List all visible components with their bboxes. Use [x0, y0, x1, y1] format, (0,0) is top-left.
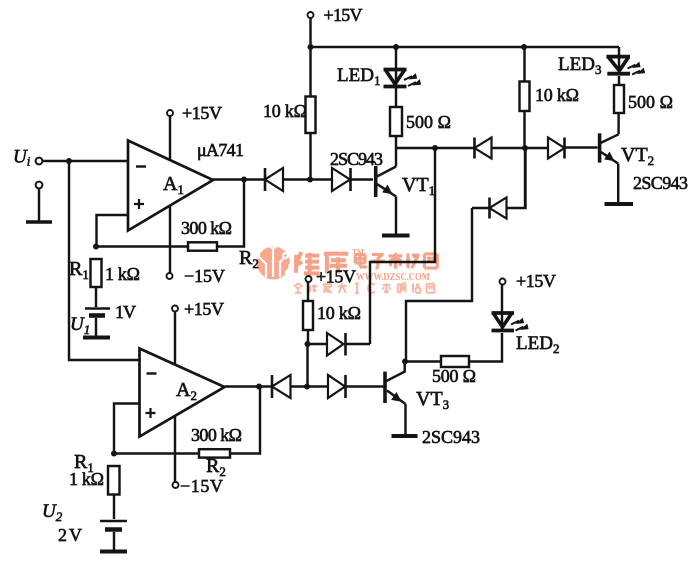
node A2 output — [256, 384, 262, 390]
wire input to A1 inverting input — [42, 160, 128, 162]
wire lower diode row — [472, 148, 526, 208]
svg-text:2SC943: 2SC943 — [330, 149, 383, 169]
wire top rail — [311, 46, 620, 48]
wire A2 noninverting input — [114, 404, 139, 454]
wire A1 -supply pin — [169, 206, 171, 273]
resistor R2 300k upper — [188, 242, 217, 250]
ground VT3 — [392, 434, 418, 438]
resistor 10k #1 — [309, 47, 311, 97]
terminal +15V LED2 — [500, 279, 506, 285]
node row2 — [305, 341, 311, 347]
svg-text:LED2: LED2 — [516, 333, 559, 356]
wire feedback left segment — [96, 245, 188, 247]
op-amp A1 — [128, 141, 213, 231]
wire VT1 collector up — [395, 136, 397, 167]
watermark — [254, 242, 437, 293]
wire A1 noninverting input — [97, 215, 129, 247]
wire row1 b — [351, 178, 374, 180]
battery U1 — [85, 307, 110, 309]
resistor 500 #2 — [441, 356, 469, 367]
LED1 — [395, 47, 397, 86]
svg-text:+15V: +15V — [324, 5, 363, 25]
diode D7 (row3 left, points left) — [271, 375, 274, 398]
ground terminal circle below Ui — [36, 182, 43, 189]
node row1 mid — [307, 177, 313, 183]
terminal +15V of A1 — [167, 110, 173, 116]
svg-text:LED3: LED3 — [558, 54, 601, 77]
battery U2 — [100, 520, 127, 522]
resistor 500 #3 — [618, 76, 620, 85]
svg-text:300 kΩ: 300 kΩ — [181, 218, 232, 238]
wire row3 a — [291, 385, 329, 387]
terminal +15V of A2 — [172, 306, 178, 312]
diode D3 (points left) — [473, 138, 476, 159]
transistor VT3 — [383, 372, 387, 403]
node input junction — [66, 158, 72, 164]
svg-text:300 kΩ: 300 kΩ — [191, 425, 242, 445]
node row3 mid — [304, 384, 310, 390]
svg-text:+15V: +15V — [516, 271, 556, 291]
+15V terminal 10k #2 — [306, 276, 312, 282]
wire ground stub — [38, 189, 40, 223]
diode D8 (row3 right, points right) — [328, 375, 345, 398]
diode D6 (row2, points right) — [308, 343, 328, 345]
node row1.5 a — [432, 145, 438, 151]
wire collector row — [405, 360, 441, 362]
wire routing to VT3 collector node — [406, 208, 472, 362]
svg-text:μA741: μA741 — [197, 140, 244, 160]
svg-text:+15V: +15V — [182, 103, 222, 123]
wire A1 +supply pin — [169, 116, 171, 160]
svg-text:+15V: +15V — [316, 267, 356, 287]
node rail LED1 — [393, 44, 399, 50]
LED2 — [492, 311, 515, 315]
resistor 10k #3 — [523, 47, 525, 82]
diode D2 (row1 right, points right) — [332, 168, 350, 191]
LED3 column — [618, 47, 620, 73]
node A1 output — [241, 177, 247, 183]
svg-text:10 kΩ: 10 kΩ — [263, 101, 307, 121]
terminal -15V of A1 — [167, 273, 173, 279]
+15V top terminal — [308, 12, 314, 18]
svg-text:2V: 2V — [58, 525, 82, 545]
svg-text:500 Ω: 500 Ω — [628, 92, 673, 112]
wire row1 a — [283, 178, 332, 180]
svg-text:2SC943: 2SC943 — [422, 427, 480, 447]
wire A2 -supply pin — [174, 417, 176, 482]
wire 10k2 node down to row3 — [306, 344, 308, 387]
wire top terminal down — [309, 18, 311, 47]
diode D1 (row1 left, points left) — [264, 168, 267, 191]
wire row1.5 — [396, 147, 475, 149]
wire row1.5 b — [492, 147, 549, 149]
transistor VT1 — [374, 166, 378, 197]
wire routing from node A down to row2 — [370, 148, 435, 344]
wire row3 b — [346, 385, 384, 387]
wire feedback2 left — [114, 452, 199, 454]
resistor 500 #1 — [395, 87, 397, 107]
wire VT1 emitter down — [395, 197, 397, 234]
ground (input) — [26, 220, 52, 224]
resistor R1 lower — [108, 466, 120, 495]
node A2 plus node — [111, 451, 117, 457]
resistor 10k #2 — [307, 282, 309, 301]
svg-text:1V: 1V — [115, 302, 136, 322]
svg-text:2SC943: 2SC943 — [633, 173, 688, 193]
svg-text:500 Ω: 500 Ω — [406, 112, 451, 132]
transistor VT2 — [617, 113, 619, 134]
svg-text:1 kΩ: 1 kΩ — [105, 264, 140, 284]
diode D5 (lower mid, points left) — [472, 207, 490, 209]
wire feedback right segment — [217, 180, 244, 247]
wire input junction down to A2 — [69, 161, 139, 360]
node Ui input terminal — [36, 158, 43, 165]
node VT3 collector — [402, 359, 408, 365]
svg-text:LED1: LED1 — [337, 65, 380, 88]
wire A2 output — [225, 385, 273, 387]
terminal -15V of A2 — [173, 482, 179, 488]
node rail 10k — [521, 44, 527, 50]
svg-text:WWW.DZSC.COM: WWW.DZSC.COM — [356, 272, 430, 283]
wire row1.5 to VT2 base — [565, 146, 598, 148]
node row1.5 c — [522, 145, 528, 151]
wire feedback2 right — [230, 387, 260, 454]
svg-text:−15V: −15V — [180, 476, 223, 496]
svg-text:10 kΩ: 10 kΩ — [317, 303, 361, 323]
svg-text:−15V: −15V — [184, 266, 225, 286]
resistor R1 upper — [91, 259, 102, 287]
svg-text:10 kΩ: 10 kΩ — [535, 85, 579, 105]
wire A1 output — [213, 178, 265, 180]
wire node to lower diode row — [524, 148, 526, 208]
resistor R2 300k lower — [199, 449, 230, 457]
svg-text:+15V: +15V — [184, 299, 224, 319]
svg-text:1 kΩ: 1 kΩ — [69, 469, 104, 489]
ground VT2 — [605, 202, 634, 206]
diode D4 (points right) — [548, 138, 565, 159]
node rail left — [308, 44, 314, 50]
op-amp A2 — [140, 349, 225, 437]
node A1 plus node — [93, 244, 99, 250]
svg-text:500 Ω: 500 Ω — [432, 366, 476, 386]
svg-text:TM: TM — [352, 247, 364, 256]
wire A2 +supply pin — [174, 312, 176, 365]
ground VT1 — [382, 234, 410, 238]
